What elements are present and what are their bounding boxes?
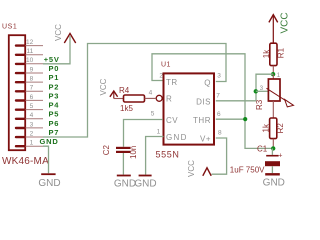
IC U1 pin numbers [149,72,222,136]
svg-text:R2: R2 [276,123,285,134]
svg-text:1: 1 [157,129,161,136]
IC U1 reset bubble [156,95,162,101]
svg-text:1uF 750V: 1uF 750V [230,165,265,174]
connector US1 pin numbers [26,39,34,147]
svg-text:GND: GND [263,178,285,189]
svg-text:P6: P6 [49,119,60,128]
pot bottom lead [272,101,274,118]
svg-text:4: 4 [149,89,153,96]
svg-text:GND: GND [38,178,60,189]
svg-text:TR: TR [166,78,178,87]
svg-text:8: 8 [30,76,34,83]
capacitor C1 top plate [266,155,278,157]
svg-text:4: 4 [30,112,34,119]
wire VCC to R4 [114,98,124,100]
connector US1 pin bars [16,46,24,147]
svg-text:1k: 1k [262,49,271,58]
junction R2/C1 [271,146,275,150]
svg-text:V+: V+ [200,134,211,143]
svg-text:P2: P2 [49,82,60,91]
svg-text:P0: P0 [49,64,60,73]
wire junction to wiper [256,74,273,101]
resistor R2 bottom lead [272,139,274,147]
IC U1 555 body [164,73,215,144]
svg-text:P3: P3 [49,91,60,100]
svg-text:5: 5 [30,103,34,110]
resistor R1 body [270,43,277,65]
svg-text:10: 10 [26,57,34,64]
svg-text:Q: Q [204,79,211,88]
ground symbol bottom-left [41,173,55,175]
svg-text:R3: R3 [255,99,264,110]
wire +5V from pin 10 to VCC arrow [43,36,70,64]
svg-text:P1: P1 [49,73,60,82]
svg-text:WK46-MA: WK46-MA [2,156,49,167]
svg-text:R: R [166,95,172,104]
svg-text:C2: C2 [102,145,111,156]
svg-text:7: 7 [216,92,220,99]
svg-text:5: 5 [151,110,155,117]
svg-text:+: + [278,153,282,160]
connector US1 body [9,35,25,150]
potentiometer R3 body [268,79,280,101]
wire P7 from pin 2 up and across to Q output [43,44,226,138]
svg-text:P4: P4 [49,101,60,110]
wire GND from pin 1 to ground [43,146,49,173]
supply VCC arrow at V+ [203,168,211,176]
svg-text:10n: 10n [129,146,138,159]
ground symbol under IC U1 [139,175,152,177]
svg-text:GND: GND [114,178,136,189]
svg-text:3: 3 [30,121,34,128]
svg-text:C1: C1 [257,144,268,153]
wire TR rail to THR junction [152,54,273,149]
svg-text:CV: CV [166,116,178,125]
svg-text:6: 6 [30,94,34,101]
svg-text:1k5: 1k5 [120,104,133,113]
wire THR pin to junction [216,118,245,120]
svg-text:12: 12 [26,39,34,46]
svg-text:1: 1 [30,140,34,147]
ground symbol under C1 [265,173,280,175]
svg-text:DIS: DIS [196,97,211,106]
junction wiper [254,89,258,93]
svg-text:11: 11 [26,48,33,55]
svg-text:P5: P5 [49,110,60,119]
svg-text:US1: US1 [2,24,17,31]
supply VCC arrow right column [269,15,278,23]
resistor R4 lead to bubble [145,97,157,99]
pot top lead [272,74,274,79]
svg-text:8: 8 [218,130,222,137]
svg-text:U1: U1 [161,62,171,69]
IC U1 pin names [166,78,211,143]
resistor R2 body [270,118,277,139]
capacitor C1 bottom plate [265,161,280,166]
capacitor C1 top lead [271,148,273,155]
net labels on connector pins [40,55,60,146]
svg-text:GND: GND [166,133,188,142]
wire DIS pin [216,100,256,102]
supply VCC arrow top-left [64,34,75,44]
svg-text:VCC: VCC [280,12,291,33]
svg-text:P7: P7 [49,128,60,137]
resistor R1 bottom lead [272,66,274,74]
svg-text:VCC: VCC [54,24,63,41]
svg-text:VCC: VCC [99,78,108,95]
capacitor C2 plates [116,147,131,149]
wire C2 to ground [122,153,124,175]
svg-text:R1: R1 [277,47,286,58]
resistor R4 body [124,95,145,102]
svg-text:GND: GND [40,137,59,146]
svg-text:9: 9 [30,66,34,73]
wire V+ pin to VCC arrow [212,138,227,174]
svg-text:+5V: +5V [44,55,60,64]
wiper stub to pot [256,90,269,92]
ground symbol under C2 [117,175,131,177]
junction R1/pot/DIS [271,72,275,76]
wire C1 to ground [271,166,273,173]
junction THR rail [243,117,247,121]
svg-text:2: 2 [159,72,163,79]
svg-text:1k: 1k [262,123,271,132]
connector US1 pin stubs [26,46,44,147]
svg-text:555N: 555N [156,150,180,160]
svg-text:2: 2 [30,130,34,137]
svg-text:VCC: VCC [187,160,196,177]
svg-text:GND: GND [134,178,156,189]
svg-text:7: 7 [30,85,34,92]
svg-text:6: 6 [217,111,221,118]
svg-text:3: 3 [217,72,221,79]
wire CV to C2 [124,120,163,147]
potentiometer R3 wiper arrow [267,88,286,100]
svg-text:R4: R4 [119,86,130,95]
svg-text:THR: THR [193,116,211,125]
wire IC GND pin to ground [146,137,164,175]
